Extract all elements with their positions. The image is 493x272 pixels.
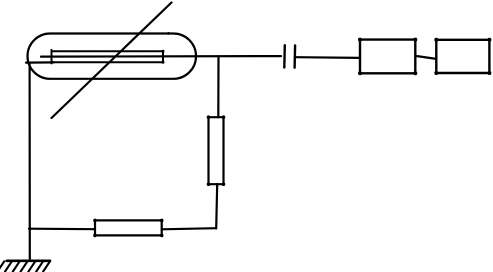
- node (junction dot on tube top edge): [167, 32, 170, 35]
- discharge tube V1 envelope: [28, 34, 197, 79]
- ground: [0, 261, 50, 272]
- wire (vertical lead from R1 up to node): [217, 57, 219, 118]
- capacitor C1: [284, 45, 295, 67]
- wire (bottom left horizontal): [29, 228, 95, 231]
- diagonal strike line across V1: [52, 3, 172, 119]
- discharge tube V1 inner electrode plate: [52, 50, 165, 64]
- resistor R2: [93, 219, 163, 238]
- wire (left stub from junction into tube): [26, 61, 54, 63]
- wire (left vertical from tube down to ground): [29, 63, 31, 261]
- block A1: [358, 38, 417, 76]
- wire (bottom right horizontal): [162, 228, 216, 229]
- wire (block A1 to block A2): [415, 56, 436, 59]
- wire (vertical lead from bottom wire to R1): [216, 184, 217, 229]
- wire (filament axis through tube to capacitor): [41, 55, 281, 58]
- wire (capacitor to block A1): [296, 56, 360, 59]
- resistor R1: [207, 115, 226, 186]
- block A2: [434, 38, 491, 75]
